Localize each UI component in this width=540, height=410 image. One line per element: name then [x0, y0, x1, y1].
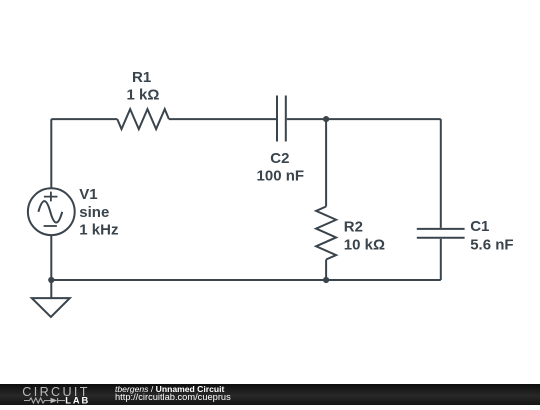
voltage source V1 circle: [28, 188, 75, 235]
footer credit line 2: [115, 393, 231, 402]
wire C2 to top-right corner: [287, 118, 441, 120]
resistor R2: [316, 207, 336, 260]
svg-text:10 kΩ: 10 kΩ: [344, 237, 385, 254]
resistor R1: [117, 109, 169, 129]
wire bottom rail: [51, 279, 441, 281]
capacitor C1: [417, 229, 465, 238]
wire right vertical lower: [440, 239, 442, 280]
svg-text:5.6 nF: 5.6 nF: [470, 237, 513, 254]
svg-text:C2: C2: [270, 150, 289, 167]
ground stub wire: [50, 280, 52, 298]
svg-text:LAB: LAB: [65, 395, 90, 405]
footer credit line 1: [115, 385, 224, 394]
svg-text:R2: R2: [344, 218, 363, 235]
node dot bottom-left (ground node): [48, 277, 54, 283]
wire R2 top lead: [325, 119, 327, 206]
V1 sine wave: [38, 201, 62, 222]
V1 minus sign: [44, 225, 57, 227]
wire V1 bottom lead: [50, 235, 52, 280]
footer bar: [0, 384, 540, 405]
wire R1 to C2: [169, 118, 276, 120]
wire top-left vertical (V1 top to top rail): [50, 119, 52, 188]
ground symbol: [32, 298, 70, 317]
CircuitLab logo resistor-diode line: [24, 398, 65, 403]
svg-text:V1: V1: [79, 186, 97, 203]
svg-text:1 kΩ: 1 kΩ: [127, 86, 160, 103]
wire R2 bottom lead: [325, 260, 327, 281]
svg-text:100 nF: 100 nF: [257, 168, 305, 185]
svg-text:sine: sine: [79, 204, 109, 221]
svg-text:1 kHz: 1 kHz: [79, 222, 118, 239]
svg-text:C1: C1: [470, 218, 489, 235]
wire top rail left segment: [51, 118, 117, 120]
wire right vertical upper: [440, 119, 442, 228]
capacitor C2: [277, 96, 286, 142]
CircuitLab logo diode triangle: [51, 398, 58, 404]
node dot at C2 output: [323, 116, 329, 122]
V1 plus sign: [44, 192, 58, 202]
node dot R2 bottom: [323, 277, 329, 283]
svg-text:R1: R1: [132, 69, 151, 86]
